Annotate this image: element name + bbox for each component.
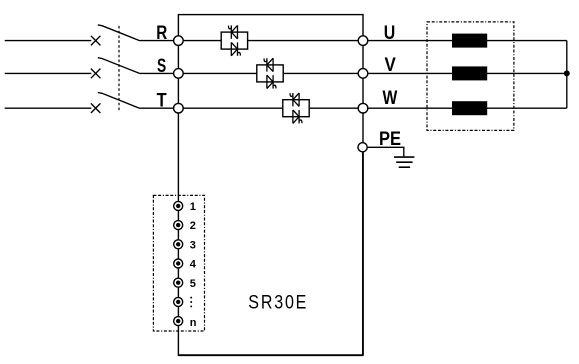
wire input phase L3 — [5, 107, 92, 109]
wire star connection (right vertical) — [566, 41, 568, 109]
svg-text:2: 2 — [190, 220, 196, 232]
svg-text:4: 4 — [190, 259, 197, 271]
breaker pole QF-2 (contact x and blade) — [91, 58, 140, 78]
control terminal 1 — [174, 201, 183, 210]
svg-text:W: W — [383, 87, 398, 109]
wire output U — [363, 40, 567, 42]
terminal T — [174, 103, 184, 113]
svg-text:U: U — [384, 22, 396, 44]
control terminal 3 — [174, 240, 183, 249]
thyristor module V3 (anti-parallel SCR pair, phase T) — [283, 93, 309, 123]
junction dot — [564, 70, 570, 76]
svg-text:V: V — [385, 54, 396, 76]
motor winding phase W (black bar) — [452, 101, 487, 115]
wire phase R-U inside unit — [178, 40, 363, 42]
control terminal 4 — [174, 259, 183, 268]
wire breaker to terminal R — [140, 40, 179, 42]
terminal W — [358, 103, 368, 113]
terminal V — [358, 69, 368, 79]
terminal R — [174, 36, 184, 46]
motor winding phase U (black bar) — [452, 34, 487, 48]
label ellipsis — [190, 297, 192, 308]
svg-text:PE: PE — [379, 128, 401, 150]
wire output W — [363, 107, 567, 109]
wire input phase L2 — [5, 72, 92, 74]
SR30E enclosure box U1 — [178, 15, 363, 356]
motor enclosure M (dashed) — [427, 22, 514, 130]
svg-text:S: S — [157, 55, 166, 77]
ground symbol — [394, 157, 414, 167]
control terminal block (dashed) — [153, 195, 204, 331]
terminal U — [358, 36, 368, 46]
svg-text:5: 5 — [190, 278, 196, 290]
svg-text:SR30E: SR30E — [248, 291, 308, 313]
terminal S — [174, 69, 184, 79]
control terminal 2 — [174, 221, 183, 230]
control terminal 5 — [174, 278, 183, 287]
svg-text:n: n — [190, 317, 197, 329]
breaker mechanical link (dashed) — [118, 26, 120, 112]
thyristor module V1 (anti-parallel SCR pair, phase R) — [221, 25, 247, 55]
wire PE to ground — [363, 147, 404, 157]
wire breaker to terminal S — [140, 72, 179, 74]
wire breaker to terminal T — [140, 107, 179, 109]
breaker pole QF-1 (contact x and blade) — [91, 25, 140, 46]
svg-text:R: R — [156, 22, 167, 44]
wire phase S-V inside unit — [178, 72, 363, 74]
svg-text:T: T — [157, 90, 167, 112]
thyristor module V2 (anti-parallel SCR pair, phase S) — [257, 58, 283, 88]
svg-text:1: 1 — [190, 201, 196, 213]
terminal PE — [358, 143, 367, 152]
wire input phase L1 — [5, 40, 92, 42]
control terminal n — [174, 317, 183, 326]
control terminal 6 — [174, 297, 183, 306]
svg-text:3: 3 — [190, 239, 196, 251]
wire phase T-W inside unit — [178, 107, 363, 109]
wire output V — [363, 72, 567, 74]
motor winding phase V (black bar) — [452, 66, 487, 80]
breaker pole QF-3 (contact x and blade) — [91, 93, 140, 114]
